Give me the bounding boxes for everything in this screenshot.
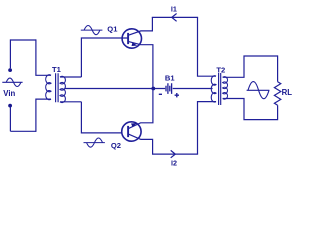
source Vin: sine wave — [6, 78, 21, 86]
transistor Q1 emitter path down to center junction — [128, 41, 153, 88]
sine icon at output: horizontal line — [247, 89, 270, 91]
wire T1 center tap to battery (middle rail) — [65, 88, 165, 90]
wire T2 secondary top lead to output loop — [223, 56, 278, 77]
transformer T1 primary winding (3 loops, left) — [46, 75, 51, 100]
transistor Q2 emitter path up to center junction — [128, 89, 153, 129]
wire output loop right vertical lower + bottom wire — [223, 99, 278, 120]
wire battery positive to T2 center tap — [173, 88, 213, 90]
svg-text:Q2: Q2 — [111, 141, 121, 150]
svg-text:RL: RL — [282, 88, 293, 97]
battery minus sign — [159, 93, 162, 95]
sine icon at Q1 base: wave — [84, 26, 100, 35]
source Vin: left vertical lower segment — [9, 107, 11, 131]
battery plus sign — [175, 93, 179, 97]
svg-text:Q1: Q1 — [107, 24, 118, 33]
transistor Q1 circle — [122, 29, 141, 48]
source Vin: bottom terminal dot — [8, 104, 12, 108]
transistor Q2 emitter arrowhead — [131, 123, 137, 127]
source Vin: top terminal dot — [8, 68, 12, 72]
wire Vin loop right vertical (top) to T1 primary top — [36, 39, 51, 75]
svg-text:B1: B1 — [165, 74, 175, 83]
sine icon at Q2 base (inverted phase): horizontal line — [84, 142, 105, 144]
transistor Q2 collector path to bottom wire — [128, 134, 198, 154]
battery B1 plates — [166, 86, 170, 92]
wire T2 primary top riser — [198, 17, 217, 76]
svg-text:I1: I1 — [171, 4, 177, 13]
transformer T1 core lines — [56, 73, 59, 102]
wire Vin loop right vertical (bottom) from T1 primary bottom — [36, 99, 51, 132]
wire T2 primary bottom riser — [198, 102, 217, 155]
transistor Q2 circle — [122, 122, 141, 141]
current arrow I1 (pointing left) — [172, 14, 177, 22]
source Vin: top wire — [10, 39, 36, 41]
transistor Q1 base bar — [127, 33, 129, 44]
junction dot at emitter/center-tap node — [151, 87, 155, 91]
wire T1 secondary bottom lead to Q2 base riser — [60, 101, 81, 103]
transistor Q1 emitter arrowhead — [132, 42, 138, 46]
svg-text:T1: T1 — [52, 65, 62, 74]
transistor Q1 collector path to top wire — [128, 17, 152, 35]
transformer T2 secondary winding (4 loops, right) — [223, 77, 228, 100]
sine icon at output: wave — [248, 82, 269, 99]
transistor Q2 base bar — [127, 126, 129, 137]
wire output loop right vertical upper — [277, 55, 279, 81]
sine icon at Q1 base: horizontal line — [81, 29, 103, 31]
svg-text:I2: I2 — [171, 158, 177, 167]
transformer T2 core lines — [219, 73, 221, 105]
transformer T1 secondary winding (4 loops, right) — [60, 76, 65, 102]
current arrow I2 (pointing right) — [171, 150, 176, 157]
source Vin: bottom wire — [10, 130, 36, 132]
sine icon at Q2 base: wave — [87, 138, 103, 147]
wire T1 secondary top lead to Q1 base riser — [60, 76, 81, 78]
wire Q1 base riser and base wire — [81, 38, 127, 77]
source Vin: sine symbol horizontal line — [2, 81, 22, 83]
source Vin: left vertical upper segment — [9, 39, 11, 68]
wire Q2 base riser and base wire — [81, 102, 122, 133]
resistor RL zigzag — [274, 82, 280, 106]
svg-text:Vin: Vin — [3, 89, 15, 98]
transformer T2 primary winding (3 loops, left) — [211, 76, 216, 102]
wire top rail (Q1 collector to T2 primary top) — [152, 16, 198, 18]
